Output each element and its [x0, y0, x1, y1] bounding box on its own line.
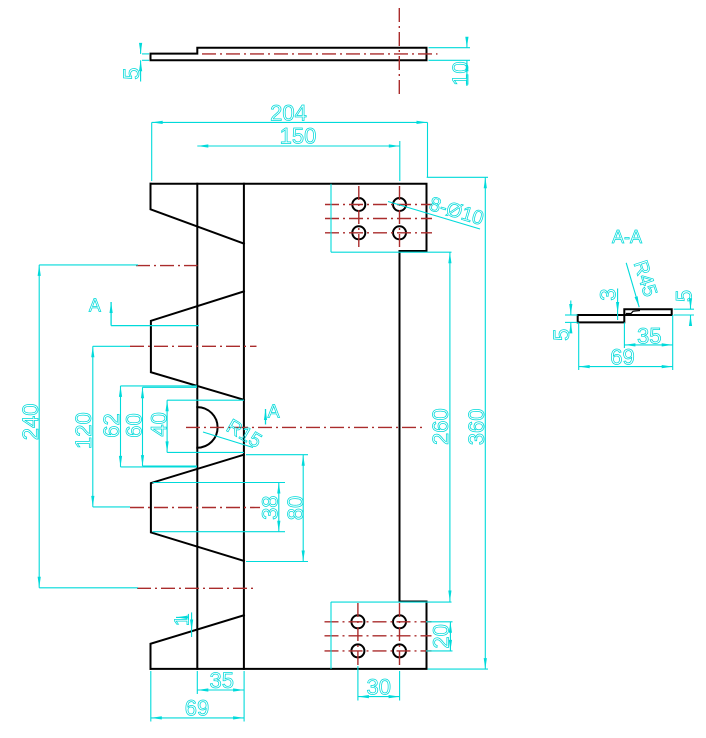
dimension 260 — [449, 252, 451, 601]
dimension 10 (top view, right) — [429, 40, 471, 87]
svg-text:69: 69 — [610, 344, 634, 369]
label R15 with leader — [203, 432, 253, 448]
extension lines around bottom bolt flange — [331, 602, 488, 669]
svg-text:69: 69 — [185, 696, 209, 721]
dimension 69 (bottom) — [151, 671, 244, 722]
section cut mark A (upper) — [111, 302, 199, 326]
svg-text:5: 5 — [119, 67, 144, 79]
svg-text:30: 30 — [367, 675, 391, 700]
svg-text:60: 60 — [122, 413, 147, 437]
svg-text:A: A — [268, 402, 280, 422]
dimension 240 — [39, 265, 138, 588]
svg-text:360: 360 — [464, 409, 489, 446]
dimension 3 (section) — [617, 289, 619, 321]
dimension 80 — [246, 455, 308, 562]
svg-text:260: 260 — [428, 408, 453, 445]
bolt holes bottom group — [351, 615, 406, 657]
dimension 30 (bottom bolt group) — [358, 666, 400, 701]
main outline right half — [151, 184, 427, 669]
svg-text:35: 35 — [637, 324, 661, 349]
dimension 5 (top view, left) — [141, 46, 149, 82]
dimension 1 (serration offset) — [176, 612, 192, 637]
inner vertical line x=197 — [196, 184, 198, 669]
dimension 69 (section) — [579, 322, 673, 370]
red centerlines: top bolt group — [325, 186, 432, 247]
svg-text:40: 40 — [146, 412, 171, 436]
top view horizontal centerline — [202, 53, 438, 55]
dimension 150 — [197, 141, 399, 181]
svg-text:120: 120 — [71, 412, 96, 449]
red centerlines: serration pitch lines — [130, 266, 423, 589]
dimension 204 — [152, 122, 428, 181]
dimension 38 — [153, 483, 286, 532]
svg-text:240: 240 — [18, 404, 43, 441]
dimension 35 (bottom) — [197, 671, 244, 722]
svg-text:1: 1 — [171, 615, 193, 626]
top view plate outline — [151, 48, 427, 61]
dimension 360 — [484, 177, 486, 669]
section left slab — [578, 315, 625, 322]
svg-text:35: 35 — [209, 668, 233, 693]
svg-text:5: 5 — [549, 329, 574, 341]
extension lines around top bolt flange — [331, 177, 488, 252]
svg-text:5: 5 — [672, 290, 697, 302]
svg-text:10: 10 — [448, 61, 473, 85]
R15 semicircular notch — [197, 407, 217, 448]
section cut mark A (center) — [265, 409, 267, 425]
svg-text:80: 80 — [283, 496, 308, 520]
label R45 with leader — [626, 263, 639, 307]
dimension 60 — [143, 387, 198, 466]
dimension 5 (section, right) — [674, 300, 694, 324]
dimension 35 (section) — [624, 315, 672, 348]
inner vertical line x=244 — [243, 184, 245, 669]
top view vertical centerline — [398, 8, 400, 98]
red centerlines: bottom bolt group — [325, 603, 432, 666]
svg-text:150: 150 — [280, 124, 317, 149]
dimension 20 (bottom bolt group rows) — [426, 622, 453, 651]
svg-text:3: 3 — [596, 288, 621, 300]
svg-text:38: 38 — [258, 495, 283, 519]
bolt holes top group — [352, 198, 406, 239]
dimension 120 — [93, 346, 130, 507]
svg-text:A: A — [89, 296, 101, 316]
svg-text:20: 20 — [428, 624, 453, 648]
main left serrated profile — [151, 184, 244, 244]
svg-text:62: 62 — [99, 413, 124, 437]
label 8-Ø10 with leader — [388, 202, 480, 230]
svg-text:204: 204 — [270, 100, 307, 125]
svg-text:A-A: A-A — [612, 227, 642, 247]
dimension 62 — [121, 386, 198, 467]
dimension 40 — [167, 400, 244, 452]
dimension 5 (section, left) — [565, 301, 578, 332]
section step detail — [626, 311, 640, 314]
section right slab — [624, 309, 671, 315]
